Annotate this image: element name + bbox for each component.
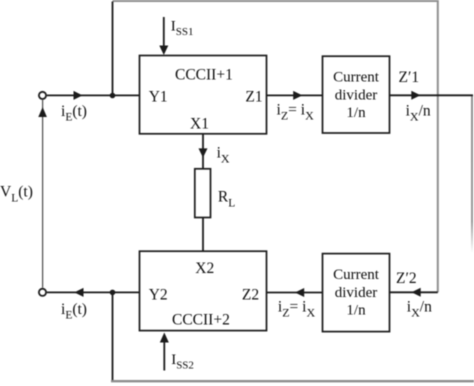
- svg-text:1/n: 1/n: [346, 303, 366, 319]
- svg-text:X1: X1: [190, 116, 209, 133]
- svg-text:1/n: 1/n: [346, 105, 366, 121]
- svg-text:divider: divider: [335, 87, 378, 103]
- svg-text:Y2: Y2: [149, 286, 168, 303]
- svg-text:Current: Current: [333, 70, 380, 86]
- svg-text:Z′1: Z′1: [399, 69, 420, 86]
- svg-text:Z′2: Z′2: [396, 270, 417, 287]
- svg-text:Z1: Z1: [245, 89, 262, 106]
- svg-text:Current: Current: [333, 267, 380, 283]
- svg-text:CCCII+1: CCCII+1: [175, 66, 233, 83]
- svg-text:Y1: Y1: [149, 89, 168, 106]
- svg-text:X2: X2: [195, 260, 214, 277]
- svg-text:CCCII+2: CCCII+2: [172, 312, 230, 329]
- svg-text:divider: divider: [335, 285, 378, 301]
- svg-text:Z2: Z2: [242, 286, 259, 303]
